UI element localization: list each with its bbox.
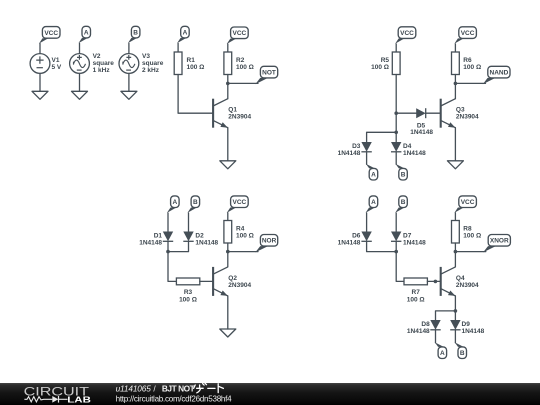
wire xyxy=(455,82,485,84)
wire xyxy=(227,44,229,52)
svg-text:A: A xyxy=(371,199,376,206)
wire xyxy=(454,243,456,267)
wire xyxy=(396,241,404,281)
wire xyxy=(168,241,176,281)
svg-text:100 Ω: 100 Ω xyxy=(407,296,425,303)
wire xyxy=(39,44,41,54)
svg-text:R6: R6 xyxy=(463,57,472,64)
svg-text:VCC: VCC xyxy=(233,199,247,206)
svg-text:B: B xyxy=(193,199,198,206)
wire xyxy=(227,75,229,99)
wire xyxy=(366,152,368,165)
wire xyxy=(79,43,81,53)
svg-text:R3: R3 xyxy=(184,289,193,296)
wire xyxy=(227,296,229,329)
flag VCC (V1 net) xyxy=(42,27,60,39)
diode D7 1N4148 xyxy=(391,232,401,242)
wire xyxy=(454,213,456,221)
flag NOR output xyxy=(255,246,268,252)
wire xyxy=(128,43,130,53)
resistor R8 xyxy=(452,221,460,244)
wire xyxy=(395,152,397,165)
svg-text:2 kHz: 2 kHz xyxy=(142,67,160,74)
wire xyxy=(366,213,368,232)
resistor R5 xyxy=(392,52,400,75)
diode D2 1N4148 xyxy=(183,232,193,242)
wire xyxy=(455,251,485,253)
transistor Q3 2N3904 xyxy=(441,99,456,128)
svg-text:VCC: VCC xyxy=(461,199,475,206)
svg-text:A: A xyxy=(440,350,445,357)
wire xyxy=(454,330,456,343)
svg-text:100 Ω: 100 Ω xyxy=(371,64,389,71)
svg-text:2N3904: 2N3904 xyxy=(456,114,479,121)
flag VCC (R5) xyxy=(398,27,416,39)
flag A (D6) xyxy=(369,196,378,208)
svg-text:A: A xyxy=(183,30,188,37)
svg-text:XNOR: XNOR xyxy=(490,238,509,245)
svg-text:1N4148: 1N4148 xyxy=(410,129,433,136)
flag B (V3 net) xyxy=(131,26,140,38)
transistor Q2 2N3904 xyxy=(213,267,228,296)
flag VCC (R4) xyxy=(231,196,249,208)
node R7/base junction xyxy=(434,280,438,284)
resistor R3 xyxy=(176,278,199,285)
svg-text:A: A xyxy=(84,30,89,37)
wire xyxy=(178,75,213,114)
svg-text:2N3904: 2N3904 xyxy=(456,282,479,289)
svg-text:R7: R7 xyxy=(412,289,421,296)
ground (V1) xyxy=(32,91,48,99)
svg-text:R1: R1 xyxy=(187,57,196,64)
diode D6 1N4148 xyxy=(361,232,371,242)
voltage source V3 square 2 kHz xyxy=(119,54,139,74)
svg-text:100 Ω: 100 Ω xyxy=(187,64,205,71)
svg-text:100 Ω: 100 Ω xyxy=(236,232,254,239)
ground (Q1 emitter) xyxy=(220,161,236,169)
diode D5 1N4148 xyxy=(416,108,426,118)
wire xyxy=(79,73,81,91)
wire xyxy=(396,112,416,114)
wire xyxy=(227,243,229,267)
svg-text:LAB: LAB xyxy=(67,395,91,405)
svg-text:R2: R2 xyxy=(236,57,245,64)
flag B (D7) xyxy=(399,196,408,208)
svg-text:1N4148: 1N4148 xyxy=(338,150,361,157)
wire xyxy=(436,311,456,320)
logo resistor zigzag xyxy=(24,397,52,402)
diode D9 1N4148 xyxy=(450,320,460,330)
wire xyxy=(200,280,213,282)
resistor R7 xyxy=(404,278,427,285)
svg-text:B: B xyxy=(401,199,406,206)
svg-text:A: A xyxy=(371,172,376,179)
svg-text:1N4148: 1N4148 xyxy=(139,239,162,246)
diode D1 1N4148 xyxy=(163,232,173,242)
flag A (V2 net) xyxy=(82,26,91,38)
wire xyxy=(227,128,229,161)
wire xyxy=(128,73,130,91)
flag VCC (R2) xyxy=(231,27,249,39)
flag VCC (R8) xyxy=(459,196,477,208)
node diode junction xyxy=(394,131,398,135)
svg-text:1N4148: 1N4148 xyxy=(407,328,430,335)
wire xyxy=(367,132,397,142)
svg-text:1N4148: 1N4148 xyxy=(403,150,426,157)
svg-text:VCC: VCC xyxy=(400,30,414,37)
svg-text:u1141065/BJT NOT: u1141065/BJT NOT xyxy=(116,384,195,394)
ground (Q2 emitter) xyxy=(220,329,236,337)
node D1/D2 junction xyxy=(166,250,170,254)
wire xyxy=(168,241,189,251)
resistor R2 xyxy=(224,52,232,75)
node NOT output junction xyxy=(226,82,230,86)
wire xyxy=(188,213,190,232)
flag NOT output xyxy=(255,78,268,84)
ground (Q3 emitter) xyxy=(447,161,463,169)
katakana GE-TO xyxy=(194,383,224,393)
flag XNOR output xyxy=(483,246,496,252)
node D6/D7 junction xyxy=(394,250,398,254)
svg-text:R8: R8 xyxy=(463,225,472,232)
flag NAND output xyxy=(483,78,496,84)
svg-text:5 V: 5 V xyxy=(52,64,62,71)
svg-text:NAND: NAND xyxy=(490,70,509,77)
wire xyxy=(39,73,41,91)
wire xyxy=(395,213,397,232)
wire xyxy=(454,75,456,99)
svg-text:NOT: NOT xyxy=(262,70,276,77)
svg-text:1N4148: 1N4148 xyxy=(403,239,426,246)
wire xyxy=(228,82,258,84)
svg-text:2N3904: 2N3904 xyxy=(228,114,251,121)
node emitter junction xyxy=(454,309,458,313)
svg-text:1N4148: 1N4148 xyxy=(338,239,361,246)
flag B (D9) xyxy=(455,342,464,347)
flag VCC (R6) xyxy=(459,27,477,39)
svg-text:1N4148: 1N4148 xyxy=(462,328,485,335)
svg-text:VCC: VCC xyxy=(44,30,58,37)
node NOR output junction xyxy=(226,250,230,254)
svg-text:B: B xyxy=(133,30,138,37)
wire xyxy=(454,128,456,161)
transistor Q1 2N3904 xyxy=(213,99,228,128)
svg-text:NOR: NOR xyxy=(262,238,277,245)
svg-text:R4: R4 xyxy=(236,225,245,232)
svg-text:2N3904: 2N3904 xyxy=(228,282,251,289)
wire xyxy=(454,296,456,320)
flag A (D1) xyxy=(171,196,180,208)
svg-text:1 kHz: 1 kHz xyxy=(93,67,111,74)
node base junction xyxy=(394,111,398,115)
svg-text:VCC: VCC xyxy=(461,30,475,37)
resistor R6 xyxy=(452,52,460,75)
wire xyxy=(427,280,440,282)
wire xyxy=(177,43,179,52)
svg-text:B: B xyxy=(460,350,465,357)
wire xyxy=(227,213,229,221)
node NAND output junction xyxy=(454,82,458,86)
flag A (D8) xyxy=(435,342,444,347)
diode D4 1N4148 xyxy=(391,142,401,152)
logo diode symbol xyxy=(52,396,58,403)
resistor R4 xyxy=(224,221,232,244)
svg-text:100 Ω: 100 Ω xyxy=(179,296,197,303)
flag A (D3) xyxy=(366,164,375,169)
voltage source V2 square 1 kHz xyxy=(70,54,90,74)
svg-text:100 Ω: 100 Ω xyxy=(236,64,254,71)
svg-text:100 Ω: 100 Ω xyxy=(463,232,481,239)
svg-text:B: B xyxy=(401,172,406,179)
wire xyxy=(426,112,441,114)
wire xyxy=(228,251,258,253)
footer bar xyxy=(0,383,540,405)
diode D8 1N4148 xyxy=(430,320,440,330)
transistor Q4 2N3904 xyxy=(441,267,456,296)
ground (V3) xyxy=(121,91,137,99)
svg-text:http://circuitlab.com/cdf26dn5: http://circuitlab.com/cdf26dn538hf4 xyxy=(116,394,233,403)
wire xyxy=(367,241,397,251)
resistor R1 xyxy=(174,52,182,75)
voltage source V1 5 V xyxy=(30,54,50,74)
flag B (D2) xyxy=(191,196,200,208)
svg-text:VCC: VCC xyxy=(233,30,247,37)
node XNOR output junction xyxy=(454,250,458,254)
wire xyxy=(395,75,397,143)
ground (V2) xyxy=(72,91,88,99)
svg-text:R5: R5 xyxy=(381,57,390,64)
wire xyxy=(454,44,456,52)
svg-text:A: A xyxy=(172,199,177,206)
flag B (D4) xyxy=(395,164,404,169)
wire xyxy=(395,44,397,52)
svg-text:1N4148: 1N4148 xyxy=(195,239,218,246)
wire xyxy=(435,330,437,343)
wire xyxy=(167,213,169,232)
svg-text:100 Ω: 100 Ω xyxy=(463,64,481,71)
diode D3 1N4148 xyxy=(361,142,371,152)
flag A (R1 input) xyxy=(181,26,190,38)
